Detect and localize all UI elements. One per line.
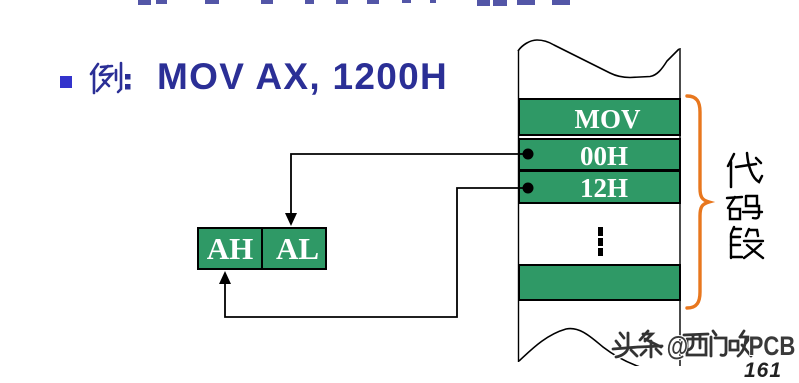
arrow from 00H to AL (291, 154, 527, 216)
memory row bottom (empty) (518, 264, 681, 301)
bullet square (60, 76, 72, 88)
label 码 (727, 196, 762, 219)
glyph 例 (91, 63, 121, 93)
memory row 00H (518, 138, 681, 171)
memory row MOV (518, 98, 681, 136)
memory strip left vertical line (518, 50, 520, 362)
memory row 12H (518, 170, 681, 204)
ellipsis dashes in memory gap (598, 227, 603, 236)
label 段 (731, 227, 763, 258)
register box AH (197, 227, 263, 270)
memory strip right vertical line (679, 48, 681, 366)
memory strip torn bottom edge (519, 329, 679, 376)
orange curly brace (687, 96, 709, 308)
clipped page number at bottom (744, 359, 782, 383)
svg-text:PCB: PCB (749, 332, 796, 362)
node dot on 00H (523, 149, 534, 160)
svg-text:@: @ (667, 332, 689, 362)
label 代 (728, 153, 762, 187)
memory strip torn top edge (518, 40, 679, 78)
arrow from 12H to AH (225, 188, 527, 317)
fullwidth colon after 例 (125, 74, 131, 80)
watermark 头条 西门吹 (white halo pass) (613, 331, 751, 357)
register box AL (261, 227, 327, 270)
watermark 头条 西门吹 (dark pass) (613, 331, 751, 357)
node dot on 12H (523, 183, 534, 194)
clipped title text fragments along top edge (138, 0, 151, 5)
heading text: MOV AX, 1200H (157, 58, 448, 95)
